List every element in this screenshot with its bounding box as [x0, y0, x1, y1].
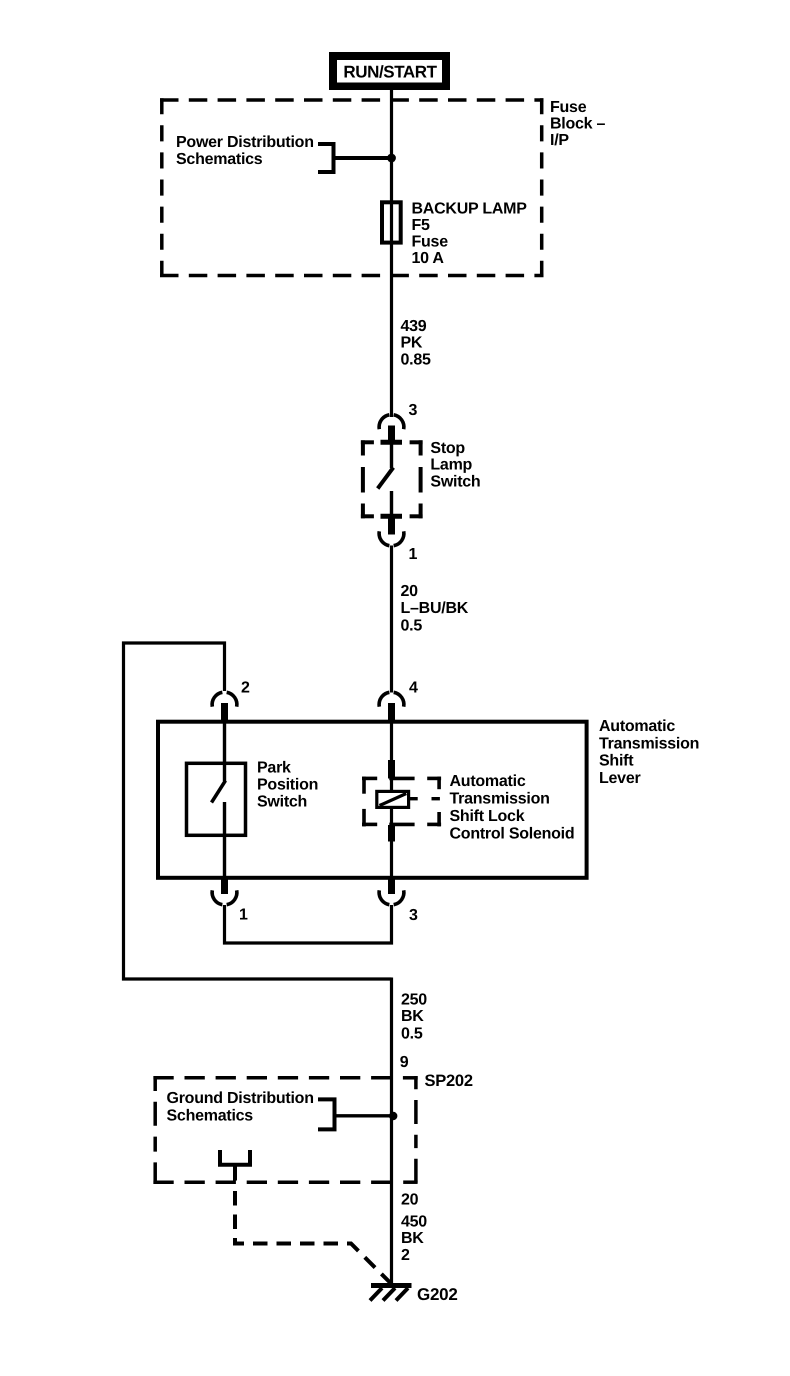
connector 3 (female half): [379, 415, 404, 429]
wire label 250 BK 0.5: [401, 992, 427, 1043]
solenoid dashed box: [362, 777, 441, 827]
svg-text:Automatic: Automatic: [450, 773, 526, 790]
wire: stop lamp switch to connector 4: [390, 546, 393, 693]
solenoid label: [450, 773, 575, 843]
stop lamp switch label: [430, 440, 480, 490]
reference bracket: [318, 144, 334, 172]
wire: pin 2 into park switch: [223, 722, 226, 781]
solenoid wire coil to pin bottom: [390, 807, 393, 826]
splice dot SP202: [389, 1112, 397, 1120]
wire label 439 PK 0.85: [401, 318, 431, 369]
jumper wire pins 1 to 3: [225, 905, 392, 943]
shift lever label: [599, 718, 699, 787]
svg-text:0.85: 0.85: [401, 352, 431, 369]
stop lamp switch contacts and blade: [390, 444, 393, 468]
wire: splice run to ground: [390, 978, 393, 1285]
svg-text:20: 20: [401, 583, 419, 600]
svg-text:Shift: Shift: [599, 753, 634, 770]
stop lamp switch terminal crossbars: [381, 440, 403, 445]
pin 2 stub: [221, 703, 228, 721]
ground symbol G202: [370, 1286, 412, 1301]
wire: bracket to splice: [335, 1114, 392, 1117]
svg-text:PK: PK: [401, 335, 423, 352]
svg-text:Position: Position: [257, 777, 318, 794]
svg-text:10 A: 10 A: [412, 250, 445, 267]
wire: bracket to main wire: [334, 156, 392, 160]
svg-text:Fuse: Fuse: [550, 99, 587, 116]
svg-text:F5: F5: [412, 217, 431, 234]
connector 3 (lever box): [379, 890, 404, 904]
svg-text:20: 20: [401, 1192, 419, 1209]
connector 1 (lever box): [212, 890, 237, 904]
label Fuse Block - I/P: [550, 99, 606, 149]
svg-text:3: 3: [409, 907, 418, 924]
svg-text:439: 439: [401, 318, 427, 335]
wire: RUN/START to connector 3: [390, 90, 393, 417]
svg-text:Lever: Lever: [599, 770, 640, 787]
svg-text:SP202: SP202: [425, 1072, 473, 1090]
pin 3 stub: [388, 426, 395, 442]
svg-text:Stop: Stop: [430, 440, 465, 457]
svg-text:L–BU/BK: L–BU/BK: [401, 600, 469, 617]
svg-text:G202: G202: [417, 1285, 458, 1304]
pin 3 stub (lever box): [388, 878, 395, 895]
wire: pin 4 to solenoid: [390, 722, 393, 762]
pin 1 stub (lever box): [221, 878, 228, 895]
svg-text:Automatic: Automatic: [599, 718, 675, 735]
svg-text:250: 250: [401, 992, 427, 1009]
svg-text:Block –: Block –: [550, 116, 606, 133]
park switch label: [257, 760, 318, 811]
svg-text:0.5: 0.5: [401, 617, 423, 634]
fuse block I/P dashed box: [160, 98, 544, 277]
ground distribution stub lead: [233, 1165, 237, 1181]
svg-text:RUN/START: RUN/START: [343, 63, 437, 82]
splice SP202 dashed box: [153, 1076, 417, 1184]
solenoid tap dash: [432, 797, 440, 800]
svg-text:2: 2: [241, 680, 250, 697]
svg-text:3: 3: [409, 402, 418, 419]
svg-text:1: 1: [409, 546, 418, 563]
solenoid coil: [377, 791, 409, 807]
wire label 450 BK 2: [401, 1213, 427, 1264]
svg-text:4: 4: [409, 679, 418, 696]
svg-text:Ground Distribution: Ground Distribution: [167, 1090, 314, 1107]
svg-text:Schematics: Schematics: [176, 151, 263, 168]
ground distribution stub symbol: [220, 1150, 250, 1165]
solenoid tap line: [410, 797, 418, 800]
pin 1 stub (stop lamp switch): [388, 517, 395, 535]
svg-text:Transmission: Transmission: [599, 735, 699, 752]
automatic transmission shift lever box: [158, 722, 587, 878]
svg-text:BK: BK: [401, 1008, 424, 1025]
junction dot: [387, 154, 396, 163]
connector 2: [212, 692, 237, 706]
fuse label BACKUP LAMP F5 10A: [412, 200, 528, 267]
svg-text:0.5: 0.5: [401, 1025, 423, 1042]
wire: solenoid to pin 3: [390, 841, 393, 878]
pin 4 stub: [388, 703, 395, 721]
dashed ground wire: [235, 1191, 391, 1284]
svg-text:Schematics: Schematics: [167, 1107, 254, 1124]
wire: pin 2 loop to ground run: [124, 643, 392, 979]
solenoid pin top: [388, 760, 395, 779]
svg-text:Transmission: Transmission: [450, 791, 550, 808]
park switch lower contact wire to pin 1: [223, 802, 226, 878]
Power Distribution Schematics reference label: [176, 134, 314, 168]
svg-text:1: 1: [239, 906, 248, 923]
svg-text:Switch: Switch: [257, 794, 307, 811]
ground reference bracket: [318, 1099, 335, 1129]
connector 4: [379, 692, 404, 706]
svg-text:Lamp: Lamp: [430, 457, 472, 474]
svg-text:450: 450: [401, 1213, 427, 1230]
park position switch box: [187, 763, 246, 835]
fuse F5: [382, 202, 401, 242]
solenoid coil wire between pin and coil: [390, 778, 393, 792]
power feed RUN/START box: [329, 52, 450, 90]
svg-text:Control Solenoid: Control Solenoid: [450, 826, 575, 843]
svg-text:Fuse: Fuse: [412, 234, 449, 251]
svg-text:BK: BK: [401, 1230, 424, 1247]
svg-text:Switch: Switch: [430, 473, 480, 490]
park switch blade: [212, 781, 226, 803]
svg-text:I/P: I/P: [550, 132, 569, 149]
svg-text:BACKUP LAMP: BACKUP LAMP: [412, 200, 528, 217]
wire label 20 L-BU/BK 0.5: [401, 583, 469, 634]
svg-text:Shift Lock: Shift Lock: [450, 808, 525, 825]
Ground Distribution Schematics reference label: [167, 1090, 314, 1124]
svg-text:9: 9: [400, 1054, 409, 1071]
svg-text:Power Distribution: Power Distribution: [176, 134, 314, 151]
svg-text:2: 2: [401, 1247, 410, 1264]
solenoid pin bottom: [388, 825, 395, 842]
svg-text:Park: Park: [257, 760, 291, 777]
connector 1 (stop lamp switch): [379, 531, 404, 545]
stop lamp switch dashed box: [361, 440, 423, 518]
